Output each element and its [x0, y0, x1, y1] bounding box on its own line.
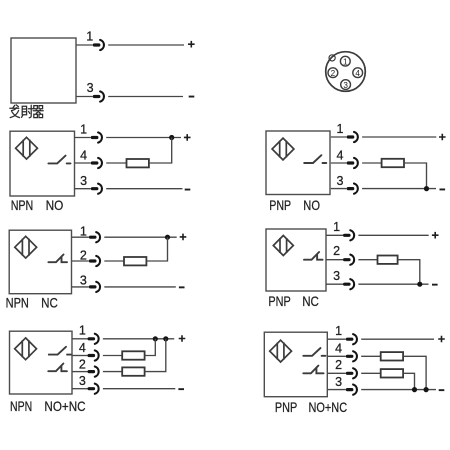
inductive sensor symbol (NPN NO) [16, 137, 38, 159]
svg-text:NPN: NPN [6, 295, 29, 311]
svg-text:1: 1 [335, 324, 342, 338]
connector plug pin 3 (NPN NC) [89, 282, 100, 292]
wire pin 2 to plug (NPN NC) [72, 260, 89, 262]
plus terminal (NPN NC) [180, 234, 187, 241]
wire pin 1 to plus (PNP NO) [362, 136, 436, 138]
M12 keying notch [329, 55, 335, 61]
wire pin 2 to plug (PNP NC) [326, 259, 343, 261]
inductive sensor symbol (PNP NO+NC) [270, 340, 292, 362]
connector plug pin 1 (NPN NC) [89, 232, 100, 242]
NO switch contact (NPN NO) [48, 156, 70, 164]
svg-text:3: 3 [87, 81, 94, 95]
minus terminal (PNP NO+NC) [439, 389, 445, 391]
wire NO load to plus junction A (NPN NO+NC) [145, 339, 156, 356]
connector plug pin 1 (PNP NC) [343, 230, 354, 240]
wire pin 1 to plus (NPN NC) [104, 236, 176, 238]
wire pin 2 to load (NPN NO+NC) [103, 371, 122, 373]
connector plug pin 4 (NPN NO+NC) [88, 350, 99, 360]
svg-text:NO+NC: NO+NC [309, 399, 348, 415]
plus terminal (NPN NO) [184, 134, 191, 141]
NC switch contact (NPN NC) [48, 255, 67, 263]
wire pin 1 to plug (NPN NO+NC) [72, 338, 88, 340]
connector plug pin 4 (PNP NO) [347, 158, 358, 168]
svg-text:2: 2 [331, 69, 336, 78]
svg-text:NPN: NPN [11, 197, 34, 213]
svg-text:3: 3 [343, 81, 348, 90]
connector plug pin 2 (PNP NO+NC) [346, 368, 357, 378]
wire pin 1 to plug (PNP NO+NC) [327, 338, 346, 340]
connector plug pin 3 (transmitter) [93, 91, 104, 101]
wire pin 3 to minus (NPN NO+NC) [103, 388, 175, 390]
connector plug pin 1 (PNP NO+NC) [346, 334, 357, 344]
minus terminal (NPN NO+NC) [178, 388, 184, 390]
inductive sensor symbol (NPN NO+NC) [15, 338, 37, 360]
svg-text:4: 4 [80, 149, 87, 163]
load resistor NO output (NPN NO+NC) [122, 351, 144, 359]
NO switch contact (PNP NO+NC) [303, 348, 325, 356]
connector plug pin 3 (PNP NC) [343, 279, 354, 289]
plus terminal (PNP NO+NC) [438, 336, 445, 343]
M12 pin 2 [328, 68, 338, 78]
wire pin 4 to load (NPN NO+NC) [103, 355, 122, 357]
wire pin 1 to plus [108, 44, 184, 46]
wire pin 1 to plug (NPN NO) [75, 137, 91, 139]
svg-text:1: 1 [343, 57, 348, 66]
M12 pin 4 [353, 68, 363, 78]
svg-text:2: 2 [335, 358, 342, 372]
NC switch contact (NPN NO+NC) [48, 364, 67, 372]
svg-text:3: 3 [79, 374, 86, 388]
plus terminal (transmitter) [188, 41, 195, 48]
connector plug pin 1 (transmitter) [93, 40, 104, 50]
wire pin 4 to plug (NPN NO) [75, 162, 91, 164]
load resistor NC output (NPN NO+NC) [122, 367, 144, 375]
wire pin 3 to plug (NPN NC) [72, 286, 89, 288]
wire pin 2 to load (PNP NO+NC) [361, 372, 381, 374]
wire pin 1 to plug (PNP NC) [326, 234, 343, 236]
svg-text:NPN: NPN [10, 398, 32, 414]
connector plug pin 3 (PNP NO) [347, 184, 358, 194]
svg-text:1: 1 [86, 30, 93, 44]
wire pin 3 to plug [76, 96, 93, 98]
minus terminal (NPN NO) [185, 189, 191, 191]
NO switch contact (PNP NO) [304, 155, 326, 163]
svg-text:1: 1 [333, 220, 340, 234]
svg-text:PNP: PNP [269, 197, 291, 213]
wire pin 1 to plus (PNP NO+NC) [361, 338, 434, 340]
wire pin 4 to plug (PNP NO) [331, 162, 347, 164]
PNP NC sensor box [266, 229, 326, 291]
wire pin 2 to plug (NPN NO+NC) [72, 371, 88, 373]
junction dot B on plus wire (NPN NO+NC) [163, 336, 168, 341]
wire pin 1 to plug (NPN NC) [72, 236, 89, 238]
svg-text:NC: NC [302, 293, 319, 309]
wire pin 3 to plug (PNP NO) [331, 188, 347, 190]
svg-text:3: 3 [80, 274, 87, 288]
svg-text:1: 1 [337, 122, 344, 136]
load resistor (NPN NC) [124, 257, 146, 265]
wire pin 3 to minus (NPN NC) [104, 286, 176, 288]
svg-text:PNP: PNP [268, 293, 290, 309]
load resistor (NPN NO) [127, 159, 149, 167]
junction dot on minus wire (PNP NC) [417, 282, 422, 287]
wire NO load to minus junction B (PNP NO+NC) [403, 356, 426, 389]
wire pin 1 to plus (PNP NC) [358, 234, 428, 236]
svg-text:4: 4 [335, 342, 342, 356]
minus terminal (NPN NC) [179, 286, 185, 288]
connector plug pin 1 (NPN NO) [91, 132, 102, 142]
inductive sensor symbol (NPN NC) [15, 236, 37, 258]
svg-text:3: 3 [333, 269, 340, 283]
svg-text:3: 3 [80, 174, 87, 188]
M12 pin 3 [341, 80, 351, 90]
wire pin 2 to plug (PNP NO+NC) [327, 372, 346, 374]
NPN NO sensor box [10, 131, 75, 196]
label 发射器 (transmitter) [10, 105, 43, 118]
svg-text:2: 2 [80, 248, 87, 262]
svg-text:NO: NO [46, 197, 64, 213]
NPN NC sensor box [9, 230, 71, 294]
NO switch contact (NPN NO+NC) [49, 347, 71, 355]
M12 pin 1 [340, 56, 350, 66]
wire load to plus junction (NPN NO) [149, 138, 172, 164]
wire pin 4 to plug (PNP NO+NC) [327, 355, 346, 357]
load resistor NO output (PNP NO+NC) [381, 352, 403, 360]
wire NC load to minus junction A (PNP NO+NC) [403, 373, 414, 389]
load resistor NC output (PNP NO+NC) [381, 369, 403, 377]
junction dot A on plus wire (NPN NO+NC) [153, 336, 158, 341]
svg-text:1: 1 [80, 123, 87, 137]
svg-text:1: 1 [79, 323, 86, 337]
wire pin 3 to minus (PNP NC) [358, 283, 428, 285]
wire pin 2 to load (PNP NC) [358, 259, 377, 261]
wire pin 3 to plug (PNP NO+NC) [327, 389, 346, 391]
minus terminal (PNP NO) [440, 189, 446, 191]
connector plug pin 2 (NPN NC) [89, 256, 100, 266]
wire pin 3 to minus (PNP NO+NC) [361, 389, 436, 391]
minus terminal (PNP NC) [432, 284, 438, 286]
wire pin 1 to plus (NPN NO+NC) [103, 338, 174, 340]
connector plug pin 2 (PNP NC) [343, 255, 354, 265]
wire NC load to plus junction B (NPN NO+NC) [145, 339, 166, 372]
wire pin 3 to minus (NPN NO) [106, 188, 182, 190]
wire pin 3 to plug (NPN NO) [75, 188, 91, 190]
inductive sensor symbol (PNP NO) [272, 138, 294, 160]
wire pin 3 to minus [108, 96, 183, 98]
connector plug pin 2 (NPN NO+NC) [88, 367, 99, 377]
svg-text:PNP: PNP [275, 399, 297, 415]
wire pin 2 to load (NPN NC) [104, 260, 124, 262]
svg-text:4: 4 [355, 69, 360, 78]
plus terminal (PNP NO) [439, 134, 446, 141]
connector plug pin 3 (NPN NO) [91, 184, 102, 194]
wire load to minus junction (PNP NO) [404, 163, 427, 189]
wire pin 3 to minus (PNP NO) [362, 188, 436, 190]
connector plug pin 4 (NPN NO) [91, 158, 102, 168]
svg-text:2: 2 [79, 357, 86, 371]
svg-text:3: 3 [337, 174, 344, 188]
wire pin 4 to load (NPN NO) [106, 162, 126, 164]
wire pin 4 to load (PNP NO+NC) [361, 355, 381, 357]
wire pin 4 to load (PNP NO) [362, 162, 382, 164]
junction dot on plus wire (NPN NC) [165, 235, 170, 240]
svg-text:NO: NO [303, 197, 320, 213]
svg-text:4: 4 [79, 341, 86, 355]
svg-text:3: 3 [335, 375, 342, 389]
wire load to plus junction (NPN NC) [146, 237, 167, 261]
NC switch contact (PNP NC) [304, 252, 323, 260]
junction dot on minus wire (PNP NO) [424, 186, 429, 191]
PNP NO+NC sensor box [264, 332, 327, 397]
connector plug pin 3 (PNP NO+NC) [346, 385, 357, 395]
svg-text:NC: NC [41, 295, 58, 311]
plus terminal (NPN NO+NC) [179, 335, 186, 342]
PNP NO sensor box [266, 131, 330, 195]
wire load to minus junction (PNP NC) [398, 260, 420, 285]
wire pin 3 to plug (PNP NC) [326, 283, 343, 285]
svg-text:NO+NC: NO+NC [44, 398, 85, 414]
NC switch contact (PNP NO+NC) [303, 366, 323, 374]
connector plug pin 4 (PNP NO+NC) [346, 351, 357, 361]
NPN NO+NC sensor box [10, 331, 73, 394]
minus terminal (transmitter) [189, 96, 195, 98]
connector plug pin 1 (PNP NO) [347, 132, 358, 142]
wire pin 4 to plug (NPN NO+NC) [72, 355, 88, 357]
connector plug pin 1 (NPN NO+NC) [88, 334, 99, 344]
svg-text:4: 4 [337, 149, 344, 163]
junction dot B on minus wire (PNP NO+NC) [424, 387, 429, 392]
transmitter box [11, 38, 76, 103]
load resistor (PNP NO) [382, 159, 404, 167]
svg-text:1: 1 [80, 224, 87, 238]
plus terminal (PNP NC) [432, 232, 439, 239]
load resistor (PNP NC) [378, 256, 398, 264]
junction dot on plus wire (NPN NO) [169, 135, 174, 140]
wire pin 1 to plug (PNP NO) [331, 136, 347, 138]
junction dot A on minus wire (PNP NO+NC) [412, 387, 417, 392]
wire pin 1 to plus (NPN NO) [106, 137, 181, 139]
wire pin 1 to plug [76, 44, 93, 46]
svg-text:2: 2 [333, 244, 340, 258]
connector plug pin 3 (NPN NO+NC) [88, 384, 99, 394]
wire pin 3 to plug (NPN NO+NC) [72, 388, 88, 390]
inductive sensor symbol (PNP NC) [273, 236, 293, 256]
M12 connector outer circle [326, 52, 366, 92]
